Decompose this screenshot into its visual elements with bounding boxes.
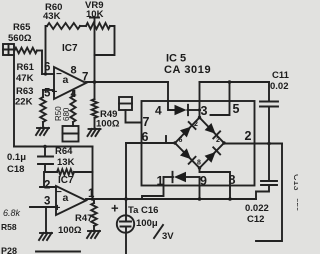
svg-text:100μ: 100μ bbox=[136, 218, 158, 229]
connector J1 (crossed box input terminal) bbox=[3, 44, 14, 55]
wire pin 3 to diamond top bbox=[199, 82, 201, 118]
wire connector down-left rail bbox=[13, 55, 15, 147]
svg-text:820: 820 bbox=[295, 198, 298, 212]
potentiometer VR9 bbox=[86, 23, 110, 29]
wire pin5 to R63 bbox=[42, 90, 44, 97]
wire output rail bbox=[86, 198, 256, 200]
node rail pin 8 bbox=[228, 197, 232, 201]
node rail R47 bbox=[91, 197, 95, 201]
svg-text:+: + bbox=[52, 87, 58, 98]
svg-text:−: − bbox=[56, 69, 62, 80]
wire bottom fragment bbox=[36, 251, 80, 253]
wire T1 to IC5 pin 7 bbox=[126, 110, 142, 123]
wire diamond bottom-left edge bbox=[175, 143, 200, 168]
ground below R49 bbox=[88, 129, 101, 136]
svg-text:8: 8 bbox=[197, 160, 201, 167]
diode D6 pins 9-1 bbox=[173, 172, 187, 182]
diode D1 bridge upper-left bbox=[180, 122, 196, 137]
wire IC7a output to IC5 pin4 bbox=[86, 81, 168, 83]
svg-text:R63: R63 bbox=[16, 86, 33, 97]
wire R65 to node bbox=[37, 50, 42, 52]
resistor R65 bbox=[15, 48, 38, 54]
svg-text:680: 680 bbox=[62, 107, 71, 121]
diode D2 bridge upper-right bbox=[205, 123, 221, 138]
wire rail to R47 bbox=[93, 199, 95, 203]
resistor R64 bbox=[57, 169, 74, 175]
svg-text:a: a bbox=[63, 192, 69, 204]
svg-text:6.8k: 6.8k bbox=[3, 208, 21, 218]
wire pin 1 external to rail bbox=[142, 177, 164, 199]
wire top diode to pin 3 bbox=[188, 109, 200, 111]
svg-text:0.1μ: 0.1μ bbox=[7, 152, 26, 163]
wire R61 vertical to pin6 node bbox=[41, 51, 43, 75]
wire stub inside box bbox=[165, 136, 167, 143]
terminal box T1 bbox=[119, 97, 132, 110]
wire left rail horizontal bbox=[14, 146, 93, 148]
node diamond right vertex bbox=[222, 141, 225, 144]
svg-text:2: 2 bbox=[245, 129, 252, 143]
wire R50 to box bbox=[72, 122, 74, 126]
wire C12 bottom to rail bbox=[256, 185, 269, 199]
svg-text:Ta: Ta bbox=[128, 205, 139, 216]
VR9 wiper arm bbox=[90, 18, 99, 56]
wire pin 1 to bottom diode bbox=[164, 176, 174, 178]
svg-text:R47: R47 bbox=[75, 213, 92, 224]
node pin 3 diode row bbox=[198, 108, 201, 111]
wire C11 bottom to pin2 net bbox=[268, 107, 270, 144]
svg-text:3: 3 bbox=[201, 104, 208, 118]
svg-text:7: 7 bbox=[143, 115, 150, 129]
node C11-C12 junction bbox=[267, 142, 271, 146]
wire rail to C16 bbox=[125, 199, 127, 222]
svg-text:0.02: 0.02 bbox=[270, 81, 289, 92]
svg-text:9: 9 bbox=[200, 174, 207, 188]
svg-text:C13: C13 bbox=[292, 174, 298, 191]
op-amp U3 IC7b bbox=[56, 186, 86, 215]
ground below R63 bbox=[36, 128, 49, 135]
svg-text:6: 6 bbox=[44, 62, 50, 74]
svg-text:CA 3019: CA 3019 bbox=[164, 64, 211, 76]
svg-text:43K: 43K bbox=[43, 11, 61, 22]
wire R60 to VR9 bbox=[80, 25, 86, 27]
svg-text:C16: C16 bbox=[141, 205, 158, 216]
svg-text:6: 6 bbox=[179, 137, 183, 144]
node diamond bottom vertex bbox=[198, 166, 201, 169]
wire diamond bottom to pin 8 bbox=[200, 168, 231, 199]
wire pin2 net down right rail bbox=[256, 144, 282, 242]
node output junction bbox=[93, 80, 97, 84]
svg-text:C11: C11 bbox=[272, 70, 290, 81]
svg-text:4: 4 bbox=[155, 104, 162, 118]
svg-text:P28: P28 bbox=[1, 246, 17, 254]
resistor R60 bbox=[47, 23, 80, 29]
svg-text:3V: 3V bbox=[162, 231, 174, 242]
svg-text:47K: 47K bbox=[16, 73, 34, 84]
svg-text:IC7: IC7 bbox=[62, 43, 78, 54]
wire R49 to ground bbox=[94, 118, 96, 128]
wire output to R49 bbox=[94, 82, 96, 99]
diode D3 bridge lower-left bbox=[180, 148, 196, 163]
wire pin2 net to C12 top bbox=[268, 144, 270, 182]
diode D5 pins 4-3 bbox=[175, 105, 189, 115]
svg-text:R58: R58 bbox=[1, 222, 17, 232]
svg-text:C12: C12 bbox=[247, 214, 264, 225]
svg-text:22K: 22K bbox=[15, 97, 33, 108]
node diamond top vertex bbox=[198, 116, 201, 119]
svg-text:560Ω: 560Ω bbox=[8, 33, 32, 44]
svg-text:+: + bbox=[111, 201, 119, 216]
wire to pin 5 input bbox=[43, 89, 54, 91]
svg-text:100Ω: 100Ω bbox=[58, 225, 82, 236]
wire pin 6 down to rail bbox=[125, 143, 127, 199]
capacitor C16 slash bbox=[154, 225, 163, 238]
wire C18 bottom bbox=[44, 164, 46, 172]
wire to C11 top bbox=[268, 82, 270, 102]
svg-text:R61: R61 bbox=[17, 62, 35, 73]
wire VR9 end loop to wiper bbox=[95, 26, 115, 55]
IC U2 CA3019 box bbox=[142, 101, 255, 186]
ground below R47 bbox=[87, 231, 100, 238]
wire diamond right vertex to pin 2 out bbox=[224, 143, 282, 145]
wire wiper node down to output bbox=[94, 55, 96, 82]
wire pin 3 input bbox=[30, 206, 56, 208]
node rail pin 9 bbox=[198, 197, 202, 201]
wire C16 to bottom bbox=[125, 227, 127, 254]
wire feedback left bbox=[44, 172, 57, 187]
wire pins 3-5 to C11 bbox=[200, 81, 270, 83]
wire diamond top-left edge bbox=[175, 118, 200, 144]
wire diamond top-right edge bbox=[200, 118, 225, 144]
wire R60 left lead down to pin6 bbox=[46, 26, 48, 74]
svg-text:2: 2 bbox=[194, 121, 198, 128]
svg-text:a: a bbox=[63, 74, 69, 86]
svg-text:R65: R65 bbox=[13, 22, 31, 33]
wire diamond bottom-right edge bbox=[200, 143, 225, 168]
wire R47 to ground bbox=[93, 226, 95, 231]
wire pin 9 to rail bbox=[199, 177, 201, 199]
svg-text:IC 5: IC 5 bbox=[166, 53, 186, 65]
svg-text:6: 6 bbox=[142, 130, 149, 144]
node C18 top bbox=[43, 145, 47, 149]
wire R64 to feedback node bbox=[74, 171, 93, 173]
wire pin 5 into IC5 bbox=[211, 82, 230, 115]
svg-text:8: 8 bbox=[71, 65, 77, 77]
svg-text:13K: 13K bbox=[57, 157, 75, 168]
wire diamond left vertex to pin 6 out bbox=[126, 142, 175, 144]
svg-text:2: 2 bbox=[44, 180, 50, 192]
wire feedback node vertical bbox=[92, 147, 94, 200]
svg-text:−: − bbox=[56, 187, 62, 198]
wire to C18 bbox=[44, 147, 46, 157]
svg-text:R64: R64 bbox=[55, 146, 73, 157]
svg-text:5: 5 bbox=[233, 102, 240, 116]
node rail C16 bbox=[124, 197, 128, 201]
diode D4 bridge lower-right bbox=[205, 147, 221, 162]
svg-text:1: 1 bbox=[157, 174, 164, 188]
svg-text:3: 3 bbox=[44, 196, 50, 208]
wire bottom diode to pin 9 bbox=[187, 176, 200, 178]
wire pin 3 to ground bbox=[45, 207, 47, 233]
svg-text:C18: C18 bbox=[7, 164, 24, 175]
svg-text:100Ω: 100Ω bbox=[96, 119, 120, 130]
wire pin4 stub bbox=[72, 91, 74, 97]
ground below IC7b input bbox=[39, 233, 52, 240]
svg-text:+: + bbox=[55, 203, 61, 214]
node pin5 junction bbox=[228, 80, 232, 84]
wire pin 4 into top diode bbox=[168, 82, 175, 110]
node diamond left vertex bbox=[173, 141, 176, 144]
node pin6 feedback junction bbox=[44, 72, 47, 75]
svg-text:2: 2 bbox=[216, 137, 220, 144]
wire to pin 6 inverting input bbox=[42, 73, 54, 75]
wire pin 2 input bbox=[40, 186, 56, 188]
terminal box T2 bbox=[63, 126, 79, 142]
op-amp U1 IC7a bbox=[54, 67, 86, 99]
svg-text:0.022: 0.022 bbox=[245, 203, 269, 214]
wire R63 to ground bbox=[42, 122, 44, 128]
